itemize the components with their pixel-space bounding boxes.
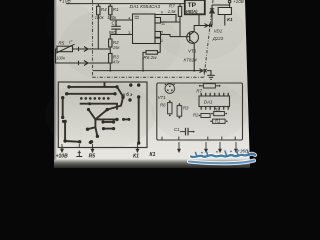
wire: sensor top line into box <box>93 48 111 50</box>
resistor R4 <box>97 6 100 15</box>
pcb pads <box>61 83 140 144</box>
arrow R5 <box>92 144 94 150</box>
pcb trace mid bar 1 <box>103 121 114 123</box>
wire: ground rail <box>93 70 202 72</box>
layout resistor R2 <box>199 115 201 117</box>
pcb trace elbow to k pad <box>117 87 123 97</box>
pcb trace left vertical <box>62 98 64 118</box>
relay coil K1 <box>218 8 231 15</box>
pcb trace top 2 <box>67 93 115 95</box>
connector X1 <box>79 47 89 52</box>
wire: VT1 emitter up and right to relay branch <box>194 26 212 32</box>
blue watermark logo <box>189 150 255 164</box>
wire: pin 5 cell stub <box>161 35 171 37</box>
resistor R1 <box>109 6 112 15</box>
wire: R1 top to rail <box>109 4 111 7</box>
printed circuit board layout box <box>58 82 147 148</box>
arrow +10V <box>61 144 63 150</box>
layout resistor R6 <box>168 103 172 114</box>
pcb trace pad pair link <box>124 118 129 120</box>
bottom terminal arrows under pcb box <box>61 144 139 152</box>
connector arrow at rail end <box>200 69 207 73</box>
pcb trace mid bar 2 <box>104 128 114 130</box>
wire: VT1 collector down to rail <box>193 43 195 70</box>
resistor R6 <box>146 51 158 55</box>
arrow ground <box>78 144 80 148</box>
wire: pin 9 to R7 node <box>155 15 176 23</box>
resistor R7 <box>178 6 181 16</box>
svg-text:К1: К1 <box>150 152 156 158</box>
wire: R3 bottom to ground rail <box>109 63 111 71</box>
wire: K1 to emitter bridge <box>229 5 231 8</box>
layout transistor VT1 <box>165 84 175 94</box>
pcb trace fan 4 <box>95 127 97 136</box>
arrow R5 right <box>219 142 221 150</box>
arrow common <box>205 142 207 150</box>
pcb trace fan 1 <box>95 110 107 120</box>
dashed boundary box of thermostat unit <box>93 0 214 77</box>
wire: R1 bottom to pin4 node <box>109 15 111 20</box>
resistor R2 <box>109 39 112 47</box>
page mottle overlay <box>45 0 248 150</box>
layout resistor R7 <box>199 85 201 87</box>
wire: R7 top to rail <box>179 4 181 7</box>
svg-text:+10В: +10В <box>233 0 244 4</box>
pcb trace top 1 <box>69 86 117 88</box>
layout resistor R4 <box>211 113 213 115</box>
resistor R3 <box>109 54 112 64</box>
wire: base bus down to VT1 base <box>180 16 190 36</box>
pcb trace collector drop <box>107 97 123 109</box>
pcb trace fan 1b <box>89 110 96 120</box>
ground <box>207 71 211 75</box>
layout resistor R1 <box>210 120 212 122</box>
pcb trace dip row underline <box>80 104 117 110</box>
page left edge shading <box>54 0 57 168</box>
arrow +10V right <box>235 142 237 150</box>
bottom edge ticks <box>162 137 235 140</box>
pcb dip pad row <box>80 97 83 100</box>
pcb trace side stub <box>63 120 65 122</box>
DA1 output pin cell 3 <box>155 38 161 44</box>
wire: R6 left lead down to ground rail <box>143 52 146 70</box>
wire: divider column <box>109 35 111 40</box>
ground symbol label under pcb box <box>76 151 82 157</box>
layout resistor R3 <box>177 106 182 117</box>
pcb trace top right link <box>104 83 106 87</box>
labels under pcb box <box>56 152 156 159</box>
arrow K1 left <box>137 144 139 150</box>
wire: TP box to emitter node <box>198 14 200 25</box>
pcb trace fan 3 <box>88 119 96 129</box>
pcb trace emitter vertical <box>138 97 140 143</box>
scanned page background <box>54 0 250 168</box>
wire: R2 to sensor node <box>109 47 111 54</box>
pcb trace fan 2 <box>95 118 117 120</box>
wire: pin 11 cell to base bus <box>161 21 181 23</box>
connector X2 <box>79 61 89 66</box>
transistor VT1 КТ814 <box>187 32 199 44</box>
pcb trace bottom left link <box>65 140 80 143</box>
wire: R5 right terminal to connector <box>73 48 93 50</box>
wire: terminal down and top bridge <box>212 3 230 5</box>
wire: sensor bottom line <box>93 62 111 64</box>
wire: pin2 cell to R6 <box>158 44 161 53</box>
DA1 output pin cell 1 <box>155 18 161 24</box>
wire: node to pin 4 of DA1 <box>110 19 132 21</box>
wire: pin 3 wire of DA1 <box>110 34 132 36</box>
arrow K1 right <box>178 142 180 150</box>
transformer unit TP box <box>185 0 205 14</box>
diode VD1 Д223 <box>211 5 213 26</box>
layout IC DA1 dip package <box>199 96 230 107</box>
terminal +10V top right <box>228 0 231 3</box>
DA1 output pin cell 2 <box>155 32 161 38</box>
wire: R5 left terminal down and to connector <box>56 49 93 63</box>
pcb trace left lower vertical <box>64 121 66 141</box>
wire: +10V top rail <box>66 3 185 5</box>
component placement box <box>157 83 243 140</box>
bottom shadow band <box>54 159 250 169</box>
bottom terminal arrows under layout box <box>178 142 238 152</box>
connector arrow on emitter wire <box>205 24 213 28</box>
wire: R4 bottom down to divider node <box>97 15 99 49</box>
wire: R4 top to rail <box>97 4 99 7</box>
